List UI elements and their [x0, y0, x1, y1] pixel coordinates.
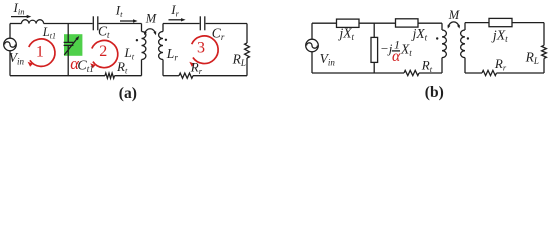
svg-text:(a): (a): [119, 85, 137, 102]
svg-text:2: 2: [99, 43, 107, 60]
svg-text:α: α: [392, 48, 401, 65]
svg-text:3: 3: [197, 40, 205, 57]
svg-text:M: M: [448, 8, 460, 22]
svg-text:M: M: [145, 11, 157, 25]
svg-text:(b): (b): [425, 84, 444, 101]
svg-text:1: 1: [36, 43, 44, 60]
svg-text:−j: −j: [380, 41, 393, 56]
